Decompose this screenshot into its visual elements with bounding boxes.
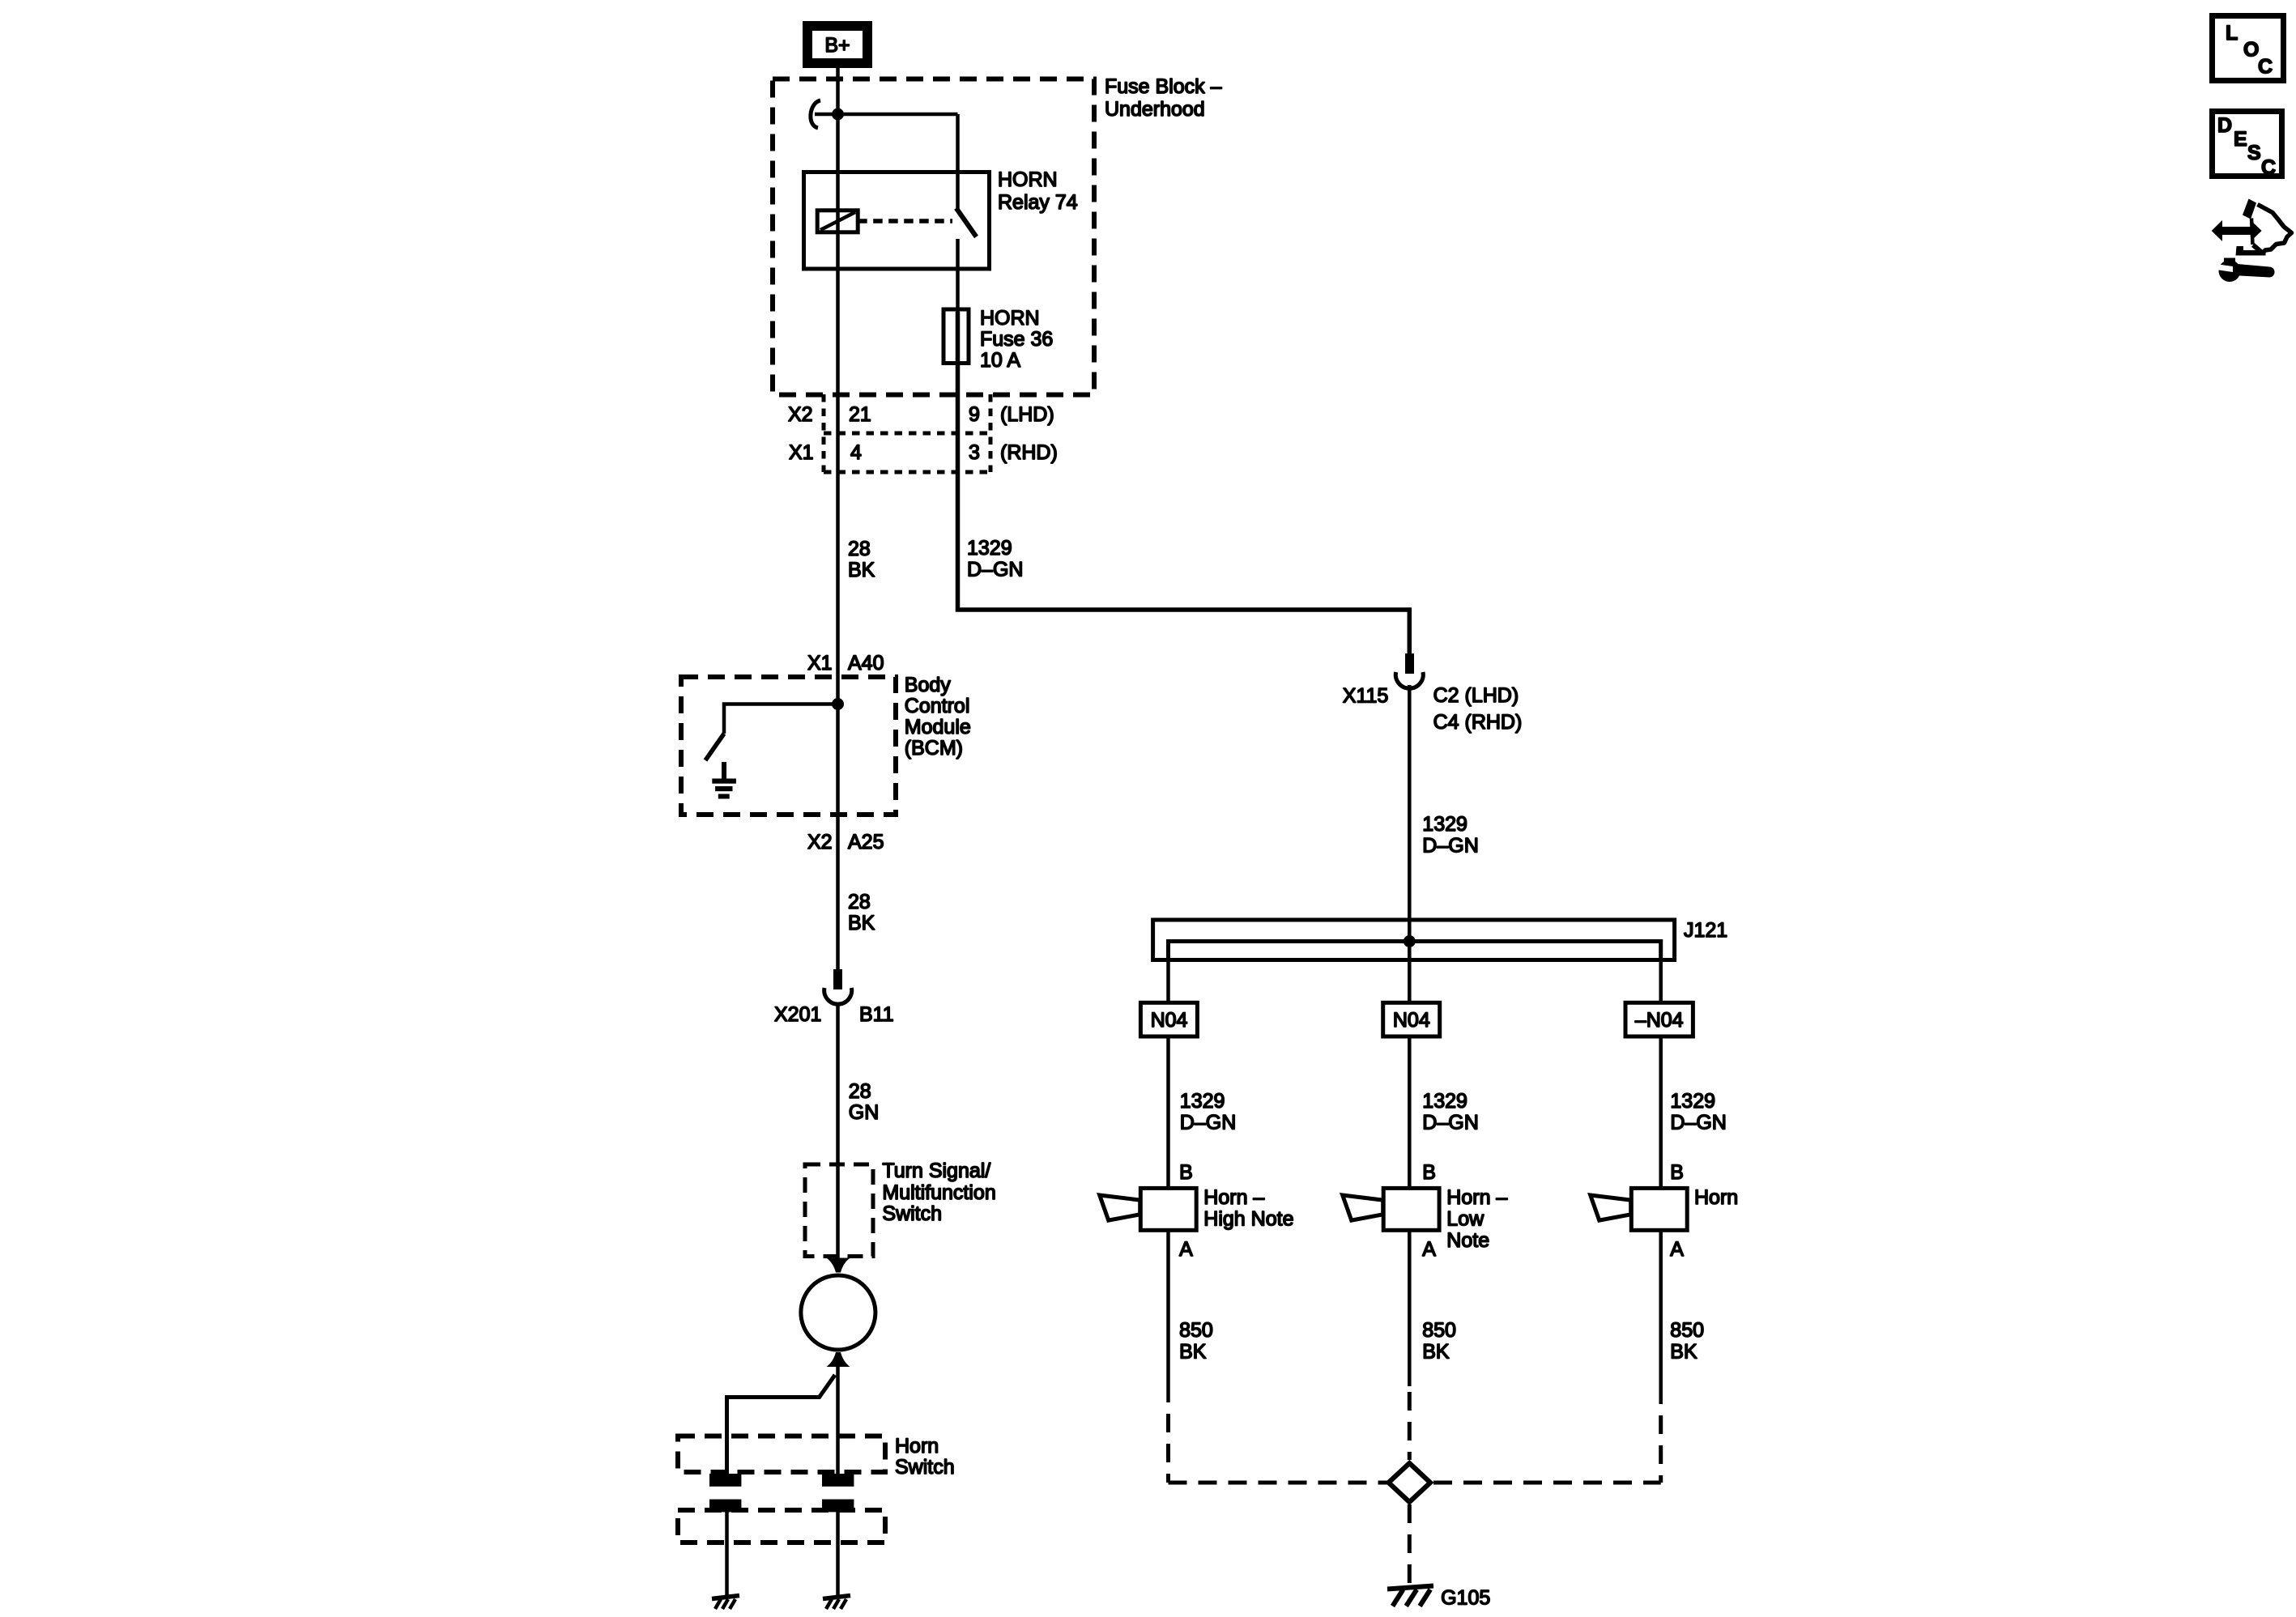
turn signal / multifunction switch dashed box [805,1164,873,1257]
connector pin rows dotted box X2/X1 [822,394,826,472]
harness connector -N04 right [1625,1002,1693,1036]
steering wheel horn pad circle [801,1275,875,1350]
svg-text:L: L [2226,22,2238,45]
svg-text:X1: X1 [807,652,833,674]
dashed ground bus horizontal [1169,1481,1390,1485]
svg-text:O: O [2243,39,2259,62]
adjust icon wrench [2216,258,2275,283]
svg-text:Horn –: Horn – [1203,1186,1264,1209]
svg-text:D–GN: D–GN [1180,1112,1236,1134]
wire relay switch feed down [956,114,960,210]
wires horns to ground (net 850 BK) [1166,1230,1170,1402]
terminal curl at B+ feed junction [811,100,820,128]
svg-text:C2 (LHD): C2 (LHD) [1433,684,1519,707]
svg-text:Switch: Switch [882,1202,942,1225]
svg-text:N04: N04 [1151,1009,1188,1032]
svg-text:3: 3 [969,441,980,464]
svg-text:10 A: 10 A [980,349,1020,372]
horn box right [1591,1188,1688,1230]
wires N04 to horns [1166,1036,1170,1189]
horn switch lower dashed box [678,1510,885,1543]
adjust icon hand outline [2236,199,2292,256]
relay actuation dashed link [858,219,952,223]
svg-text:Fuse Block –: Fuse Block – [1105,75,1222,98]
svg-text:B11: B11 [859,1003,894,1026]
horn switch upper contacts [709,1474,741,1487]
wires to chassis grounds [725,1512,729,1596]
dashed wire diamond to G105 [1408,1504,1412,1585]
DESC legend box [2213,112,2282,180]
svg-text:850: 850 [1670,1319,1704,1342]
horn switch lower contacts [709,1500,741,1513]
relay coil [817,211,858,232]
svg-text:X2: X2 [788,403,813,426]
svg-text:D–GN: D–GN [1422,835,1478,857]
svg-text:Relay 74: Relay 74 [998,191,1078,214]
svg-text:C4 (RHD): C4 (RHD) [1433,711,1523,734]
svg-text:B: B [1422,1161,1436,1184]
branch wire to left horn switch contact [727,1375,836,1475]
wire splice to left N04 [1166,942,1170,1005]
svg-text:Module: Module [905,716,971,738]
harness connector N04 center [1383,1002,1440,1036]
svg-text:A: A [1670,1238,1684,1261]
horn high note box [1100,1188,1197,1230]
svg-text:(RHD): (RHD) [1000,441,1058,464]
svg-text:1329: 1329 [967,537,1012,560]
sliding contact arrow upper [827,1258,850,1273]
svg-text:High Note: High Note [1203,1208,1293,1231]
BCM internal ground [712,762,736,799]
svg-text:BK: BK [1670,1341,1698,1364]
svg-text:G105: G105 [1441,1587,1490,1610]
svg-text:X2: X2 [807,831,833,853]
svg-text:4: 4 [850,441,862,464]
ground splice diamond [1389,1463,1431,1502]
svg-text:HORN: HORN [998,168,1058,191]
svg-text:BK: BK [1179,1341,1207,1364]
svg-text:S: S [2247,142,2261,164]
chassis ground left [712,1596,739,1610]
connector X115 male pin [1405,653,1414,674]
svg-text:1329: 1329 [1422,1090,1467,1113]
svg-text:A: A [1179,1238,1193,1261]
svg-text:E: E [2234,128,2247,151]
svg-text:Horn: Horn [895,1435,939,1457]
svg-text:850: 850 [1422,1319,1456,1342]
harness connector N04 left [1140,1002,1197,1036]
relay switch blade [956,208,977,237]
junction node B+ feed [832,109,844,121]
svg-text:Low: Low [1446,1208,1485,1231]
wire B+ down to X201 (net 28 BK) [836,68,840,969]
wire horn pad to horn switch [836,1367,840,1475]
svg-text:(BCM): (BCM) [905,737,963,760]
svg-text:Horn –: Horn – [1446,1186,1507,1209]
svg-text:X1: X1 [789,441,814,464]
svg-text:A25: A25 [848,831,884,853]
svg-text:D–GN: D–GN [1670,1112,1726,1134]
svg-text:J121: J121 [1684,919,1727,942]
ground G105 [1387,1586,1433,1606]
svg-text:Underhood: Underhood [1105,98,1205,121]
relay output contact stub [956,239,960,312]
svg-text:C: C [2258,55,2273,78]
svg-text:1329: 1329 [1670,1090,1715,1113]
svg-text:BK: BK [1422,1341,1450,1364]
svg-text:D–GN: D–GN [1422,1112,1478,1134]
svg-text:HORN: HORN [980,307,1040,330]
svg-text:D–GN: D–GN [967,559,1023,581]
svg-text:28: 28 [848,538,871,560]
adjust icon double arrow [2212,220,2262,241]
svg-text:GN: GN [849,1101,880,1124]
svg-text:Turn Signal/: Turn Signal/ [882,1160,990,1182]
splice pack J121 bus [1153,920,1675,960]
body control module dashed box [681,677,896,815]
connector X201 male pin [833,969,842,989]
chassis ground right [823,1596,850,1610]
horn fuse 36 [944,309,969,364]
svg-text:BK: BK [848,559,875,581]
fuse block underhood dashed box [773,79,1094,395]
svg-text:A40: A40 [848,652,884,674]
svg-text:850: 850 [1179,1319,1213,1342]
wire X115 to splice (net 1329 D-GN) [1408,685,1412,1004]
svg-text:Note: Note [1446,1229,1489,1252]
svg-text:N04: N04 [1393,1009,1430,1032]
svg-text:(LHD): (LHD) [1000,403,1054,426]
BCM internal switch wire [724,704,838,734]
svg-text:B+: B+ [824,34,850,57]
sliding contact arrow lower [827,1352,850,1367]
junction node A40 [832,698,844,710]
horn switch dashed box [678,1436,885,1473]
dashed ground wires [1166,1414,1170,1483]
svg-text:21: 21 [849,403,871,426]
svg-text:1329: 1329 [1422,813,1467,836]
svg-text:Switch: Switch [895,1456,955,1479]
wire fuse output down (net 1329 D-GN) [958,312,1410,653]
svg-text:B: B [1670,1161,1684,1184]
svg-text:1329: 1329 [1180,1090,1225,1113]
svg-text:Fuse 36: Fuse 36 [980,328,1053,351]
svg-text:C: C [2261,156,2276,179]
battery feed B+ terminal box [807,26,867,63]
svg-text:X201: X201 [774,1003,821,1026]
LOC legend box [2213,16,2284,81]
svg-text:BK: BK [848,912,875,934]
wire below X201 (net 28 GN) [836,1005,840,1262]
svg-text:28: 28 [849,1080,871,1103]
relay 74 box [804,172,990,270]
horn low note box [1343,1188,1439,1230]
BCM switch blade [705,734,724,760]
svg-text:28: 28 [848,891,871,913]
svg-text:Multifunction: Multifunction [882,1181,995,1204]
connector X115 female cup [1395,672,1423,688]
svg-text:9: 9 [969,403,980,426]
svg-text:A: A [1422,1238,1436,1261]
svg-text:B: B [1179,1161,1193,1184]
svg-text:Control: Control [905,695,970,717]
svg-text:Body: Body [905,674,951,696]
svg-text:Horn: Horn [1694,1186,1738,1209]
connector X201 female cup [824,988,852,1004]
svg-text:D: D [2217,114,2232,137]
junction node at J121 [1404,935,1416,947]
svg-text:X115: X115 [1343,685,1389,708]
wire splice to right N04 [1659,942,1663,1005]
svg-text:–N04: –N04 [1635,1009,1684,1032]
